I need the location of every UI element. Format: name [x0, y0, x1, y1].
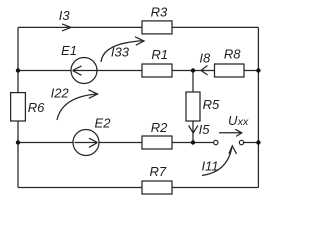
resistor R6	[11, 93, 45, 121]
terminal right (open)	[239, 140, 243, 144]
svg-text:E2: E2	[95, 115, 112, 130]
node junction right row2	[256, 68, 260, 72]
wire row E1-R1-R8	[18, 70, 258, 72]
wire right terminal to right vertical	[244, 142, 259, 144]
voltage arrow Uxx	[219, 113, 249, 136]
current arrow I22 (curved)	[51, 85, 98, 120]
svg-text:R8: R8	[224, 46, 241, 61]
terminal left (open)	[214, 140, 218, 144]
resistor R7	[142, 164, 172, 194]
svg-text:R7: R7	[149, 164, 166, 179]
current arrow I8	[199, 51, 211, 75]
svg-text:R5: R5	[203, 97, 220, 112]
wire bottom	[18, 187, 258, 189]
svg-text:I22: I22	[51, 85, 70, 100]
svg-text:I5: I5	[199, 122, 211, 137]
svg-text:Uxx: Uxx	[228, 113, 249, 128]
current arrow I11 (curved)	[201, 146, 236, 176]
resistor R8	[215, 46, 245, 77]
svg-text:R3: R3	[151, 4, 168, 19]
node junction left row2	[16, 68, 20, 72]
wire top	[18, 26, 258, 28]
svg-text:E1: E1	[61, 43, 77, 58]
svg-text:I8: I8	[199, 51, 211, 66]
node junction right row3	[256, 140, 260, 144]
svg-text:I33: I33	[111, 44, 130, 59]
svg-text:I11: I11	[201, 159, 218, 174]
wire right vertical	[257, 27, 259, 187]
svg-text:R6: R6	[28, 100, 45, 115]
svg-text:I3: I3	[59, 8, 71, 23]
current arrow I33 (curved)	[101, 37, 144, 62]
source E2	[73, 115, 111, 155]
node junction left row3	[16, 140, 20, 144]
wire R5 branch	[192, 71, 194, 143]
resistor R5	[186, 92, 220, 121]
wire row E2-R2 to left terminal	[18, 142, 214, 144]
resistor R3	[142, 4, 172, 34]
current arrow I3	[59, 8, 71, 31]
resistor R2	[142, 120, 172, 149]
source E1	[61, 43, 97, 84]
svg-text:R1: R1	[151, 47, 168, 62]
resistor R1	[142, 47, 172, 77]
node junction R5 top	[191, 68, 195, 72]
wire left vertical	[17, 27, 19, 187]
node junction R5 bottom	[191, 140, 195, 144]
current arrow I5	[189, 122, 211, 137]
svg-text:R2: R2	[151, 120, 168, 135]
